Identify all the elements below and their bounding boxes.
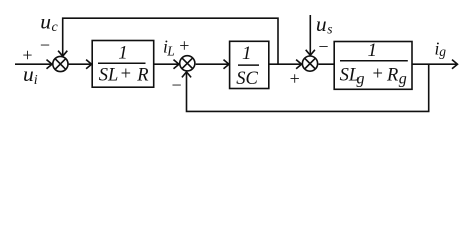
svg-text:−: − <box>318 37 328 57</box>
svg-text:R: R <box>136 66 148 86</box>
svg-text:1: 1 <box>242 43 252 64</box>
svg-text:1: 1 <box>118 42 128 63</box>
svg-text:g: g <box>399 71 407 88</box>
svg-text:1: 1 <box>368 40 378 61</box>
svg-text:SC: SC <box>236 69 258 89</box>
svg-text:u: u <box>316 12 327 36</box>
svg-text:L: L <box>166 44 175 59</box>
svg-text:SL: SL <box>99 66 119 86</box>
svg-text:+: + <box>179 36 189 56</box>
svg-text:+: + <box>372 65 382 85</box>
svg-text:−: − <box>172 75 182 95</box>
svg-text:i: i <box>34 73 38 88</box>
svg-text:c: c <box>52 20 59 35</box>
svg-text:+: + <box>121 65 131 85</box>
svg-text:−: − <box>40 35 50 55</box>
svg-text:R: R <box>386 66 398 86</box>
svg-text:g: g <box>357 71 365 88</box>
svg-text:+: + <box>290 68 300 88</box>
svg-text:u: u <box>40 10 51 34</box>
svg-text:g: g <box>439 44 446 59</box>
svg-text:s: s <box>327 22 332 37</box>
svg-text:u: u <box>23 62 34 86</box>
